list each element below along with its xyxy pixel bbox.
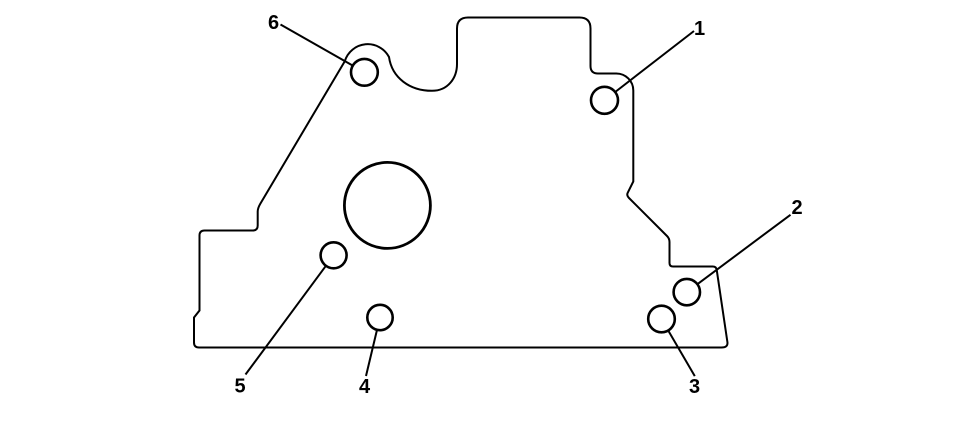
svg-text:4: 4 <box>359 376 371 398</box>
svg-text:3: 3 <box>689 376 700 398</box>
leader line 1 <box>615 31 694 92</box>
svg-text:2: 2 <box>791 197 802 219</box>
leader line 5 <box>246 266 326 375</box>
svg-text:1: 1 <box>694 18 705 40</box>
bolt hole 6 <box>351 59 378 86</box>
bolt hole 2 <box>674 279 700 305</box>
leader line 3 <box>668 331 695 377</box>
bolt hole 4 <box>367 305 392 330</box>
svg-text:5: 5 <box>234 376 245 398</box>
bolt hole 1 <box>591 87 618 114</box>
leader line 6 <box>281 25 353 66</box>
bolt hole 3 <box>648 306 675 333</box>
leader line 4 <box>366 330 377 376</box>
engine front cover plate outline <box>194 18 727 348</box>
bolt hole 5 <box>321 242 347 268</box>
leader line 2 <box>697 215 790 284</box>
svg-text:6: 6 <box>268 12 279 34</box>
large center opening <box>344 162 430 248</box>
